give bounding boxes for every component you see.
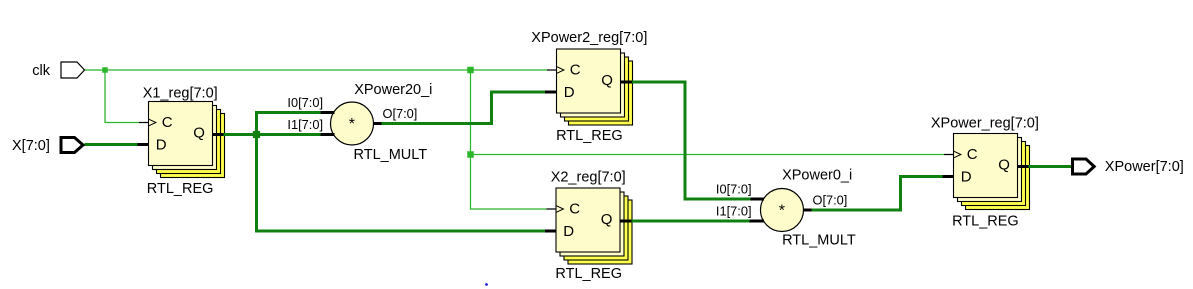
svg-text:XPower[7:0]: XPower[7:0] <box>1105 159 1184 175</box>
svg-text:clk: clk <box>32 63 50 79</box>
svg-text:I0[7:0]: I0[7:0] <box>287 95 323 110</box>
svg-text:X[7:0]: X[7:0] <box>12 138 50 154</box>
svg-text:*: * <box>349 116 355 133</box>
svg-text:Q: Q <box>998 157 1010 174</box>
svg-text:X1_reg[7:0]: X1_reg[7:0] <box>143 86 218 102</box>
svg-text:RTL_MULT: RTL_MULT <box>782 233 856 249</box>
svg-text:RTL_REG: RTL_REG <box>555 266 622 282</box>
svg-text:C: C <box>569 201 580 218</box>
svg-text:D: D <box>156 137 167 154</box>
svg-text:I1[7:0]: I1[7:0] <box>716 204 752 219</box>
svg-text:RTL_REG: RTL_REG <box>952 213 1019 229</box>
svg-text:XPower0_i: XPower0_i <box>782 168 852 184</box>
svg-text:RTL_REG: RTL_REG <box>556 128 623 144</box>
svg-text:D: D <box>961 169 972 186</box>
svg-text:X2_reg[7:0]: X2_reg[7:0] <box>551 169 626 185</box>
svg-text:C: C <box>570 62 581 79</box>
svg-text:Q: Q <box>601 72 613 89</box>
svg-text:O[7:0]: O[7:0] <box>813 193 848 208</box>
svg-text:RTL_MULT: RTL_MULT <box>354 147 428 163</box>
svg-text:Q: Q <box>193 125 205 142</box>
svg-text:C: C <box>967 146 978 163</box>
svg-text:D: D <box>564 84 575 101</box>
svg-text:C: C <box>162 114 173 131</box>
svg-text:XPower20_i: XPower20_i <box>354 82 432 98</box>
svg-text:I0[7:0]: I0[7:0] <box>716 182 752 197</box>
svg-text:*: * <box>779 202 785 219</box>
svg-text:Q: Q <box>601 211 613 228</box>
svg-text:I1[7:0]: I1[7:0] <box>287 117 323 132</box>
svg-text:D: D <box>563 223 574 240</box>
svg-text:O[7:0]: O[7:0] <box>383 106 418 121</box>
svg-text:XPower_reg[7:0]: XPower_reg[7:0] <box>931 115 1039 131</box>
svg-text:RTL_REG: RTL_REG <box>147 181 214 197</box>
svg-text:XPower2_reg[7:0]: XPower2_reg[7:0] <box>531 30 647 46</box>
